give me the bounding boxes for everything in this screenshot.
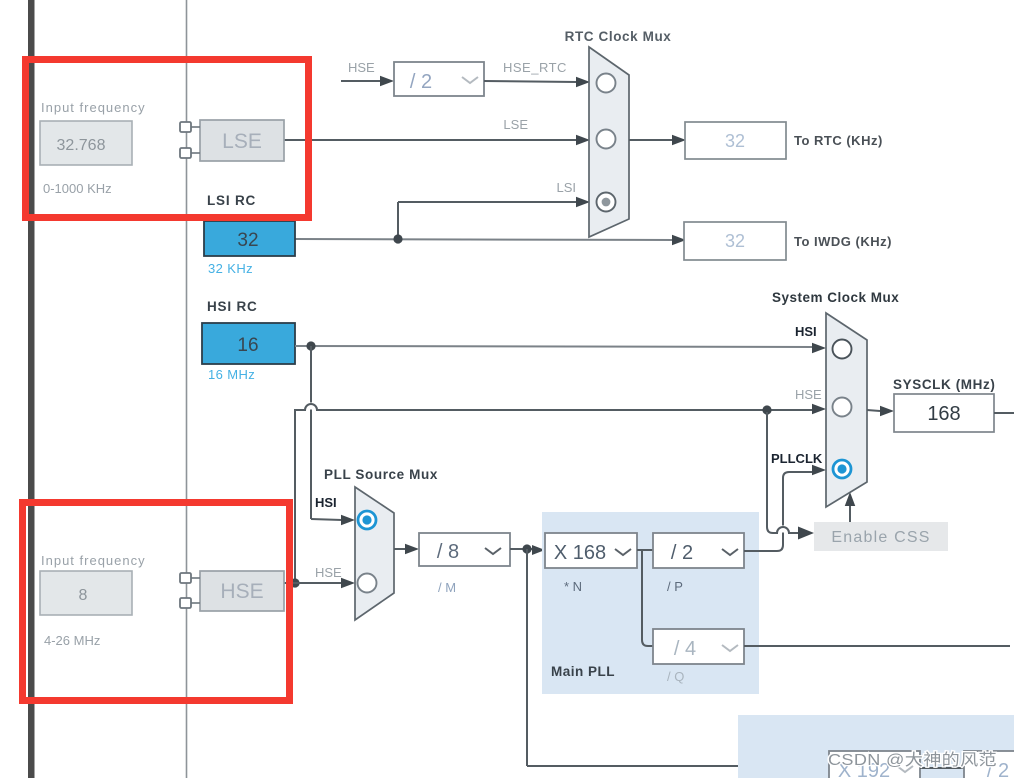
svg-text:/ M: / M: [438, 580, 456, 595]
mux PLL Source Mux: [324, 467, 438, 620]
block Main PLL background: [542, 512, 759, 694]
svg-text:32: 32: [237, 230, 258, 251]
wire HSE to Enable CSS (with hop): [767, 412, 799, 533]
svg-text:X 168: X 168: [554, 542, 606, 564]
svg-text:HSE: HSE: [220, 580, 263, 603]
wire PLL mux to /M divider: [394, 548, 406, 550]
svg-text:To IWDG (KHz): To IWDG (KHz): [794, 234, 892, 249]
pin square LSE top: [191, 126, 200, 128]
svg-text:4-26 MHz: 4-26 MHz: [44, 633, 100, 648]
pin square HSE bottom: [191, 602, 200, 604]
svg-text:LSE: LSE: [503, 117, 528, 132]
svg-text:System Clock Mux: System Clock Mux: [772, 290, 899, 305]
svg-text:LSI: LSI: [556, 180, 576, 195]
wire /M output: [510, 548, 533, 550]
svg-text:168: 168: [927, 403, 960, 425]
svg-text:HSE: HSE: [795, 387, 822, 402]
junction LSI branch: [393, 234, 402, 243]
annotation red rectangle (HSE input): [23, 503, 290, 701]
svg-text:RTC Clock Mux: RTC Clock Mux: [565, 29, 672, 44]
multiplier PLLI2S X 192 dropdown: [829, 751, 920, 783]
clock source box LSI RC 32: [204, 221, 295, 256]
svg-text:/ 4: / 4: [674, 638, 696, 660]
pin square LSE bottom: [191, 152, 200, 154]
button Enable CSS: [814, 522, 948, 551]
hop gap: [779, 526, 786, 533]
wire /M node down to PLLI2S: [526, 549, 528, 766]
wire HSE to PLL Source Mux: [284, 582, 342, 584]
wire HSI down to PLL Source Mux: [310, 346, 312, 519]
svg-text:Main PLL: Main PLL: [551, 664, 615, 679]
wire /P output up to System Clock Mux PLLCLK: [744, 472, 813, 551]
wire HSI to System Clock Mux: [295, 346, 813, 347]
svg-text:LSE: LSE: [222, 130, 262, 153]
annotation red rectangle (LSE input): [26, 60, 309, 218]
junction /M output node: [522, 544, 531, 553]
oscillator block HSE: [200, 571, 284, 611]
wire HSE into /2 divider: [341, 80, 381, 82]
svg-text:LSI RC: LSI RC: [207, 193, 256, 208]
svg-text:To RTC (KHz): To RTC (KHz): [794, 133, 883, 148]
svg-text:PLLCLK: PLLCLK: [771, 451, 823, 466]
wire Enable CSS up to mux: [849, 500, 851, 522]
oscillator block LSE: [200, 120, 284, 161]
svg-text:32: 32: [725, 131, 745, 151]
junction HSE to CSS branch: [762, 405, 771, 414]
mux RTC Clock Mux: [565, 29, 672, 237]
wire X168 to /P and branch to /Q: [637, 549, 653, 551]
svg-text:32.768: 32.768: [57, 137, 106, 154]
svg-text:/ 2: / 2: [410, 71, 432, 93]
wire LSI branch up to RTC mux: [397, 202, 399, 240]
wire HSE up and right to System Clock Mux (with hop): [295, 404, 813, 583]
wire LSI to IWDG: [295, 239, 673, 240]
svg-text:/ 2: / 2: [671, 542, 693, 564]
svg-text:16: 16: [237, 335, 258, 356]
block PLLI2S background: [738, 715, 1014, 778]
divider PLLI2S /R dropdown /2: [964, 751, 1014, 783]
svg-text:/ 8: / 8: [437, 541, 459, 563]
svg-text:HSE: HSE: [315, 565, 342, 580]
value box To IWDG 32: [684, 222, 786, 260]
panel left dark edge bar: [28, 0, 35, 778]
divider /M dropdown /8: [419, 533, 510, 566]
wire LSE box to RTC mux: [284, 139, 577, 141]
value box To RTC 32: [685, 122, 786, 159]
svg-text:PLL Source Mux: PLL Source Mux: [324, 467, 438, 482]
svg-text:Enable CSS: Enable CSS: [831, 529, 930, 546]
multiplier *N dropdown X 168: [545, 533, 637, 568]
vertical oscillator net line: [186, 0, 188, 778]
wire /Q output to 48MHz clocks: [744, 645, 1010, 647]
svg-text:8: 8: [79, 587, 88, 604]
mux System Clock Mux: [772, 290, 899, 507]
svg-text:HSE_RTC: HSE_RTC: [503, 60, 567, 75]
divider /Q dropdown /4: [653, 629, 744, 664]
divider /P dropdown /2: [653, 533, 744, 568]
wire RTC mux output: [629, 139, 673, 141]
svg-text:32 KHz: 32 KHz: [208, 261, 253, 276]
svg-text:16 MHz: 16 MHz: [208, 367, 255, 382]
svg-text:32: 32: [725, 231, 745, 251]
junction HSE output: [290, 578, 299, 587]
pin square HSE top: [191, 577, 200, 579]
input box LSE frequency 32.768: [40, 121, 132, 165]
svg-text:0-1000 KHz: 0-1000 KHz: [43, 181, 112, 196]
value box SYSCLK 168: [894, 394, 994, 432]
svg-text:SYSCLK (MHz): SYSCLK (MHz): [893, 377, 995, 392]
svg-text:CSDN @大神的风范: CSDN @大神的风范: [828, 751, 997, 769]
svg-text:* N: * N: [564, 579, 582, 594]
clock source box HSI RC 16: [202, 323, 295, 364]
input box HSE frequency 8: [40, 571, 132, 615]
svg-text:Input frequency: Input frequency: [41, 100, 146, 115]
svg-text:/ P: / P: [667, 579, 683, 594]
hop gap: [307, 403, 314, 410]
svg-text:/ Q: / Q: [667, 669, 684, 684]
svg-text:HSI RC: HSI RC: [207, 299, 258, 314]
svg-text:HSI: HSI: [315, 495, 337, 510]
wire SYSCLK out: [994, 412, 1014, 414]
wire /2 to RTC mux, net HSE_RTC: [484, 81, 577, 82]
svg-text:HSI: HSI: [795, 324, 817, 339]
divider HSE_RTC /2 dropdown: [394, 62, 484, 96]
svg-text:Input frequency: Input frequency: [41, 553, 146, 568]
wire mux to SYSCLK box: [867, 410, 880, 411]
wire X192 to /R: [920, 767, 964, 769]
svg-text:HSE: HSE: [348, 60, 375, 75]
junction HSI branch: [306, 341, 315, 350]
